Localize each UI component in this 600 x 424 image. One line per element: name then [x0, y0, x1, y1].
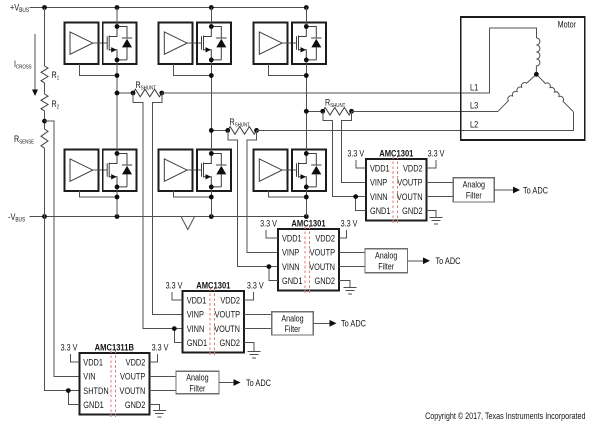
svg-text:VINN: VINN	[370, 191, 388, 202]
phase C shunt node wire	[306, 110, 322, 112]
filter 1 output arrow	[494, 189, 513, 191]
svg-text:Motor: Motor	[558, 20, 577, 30]
kelvin sense B right to AMC1301 U2 VINP	[247, 130, 278, 252]
U4 GND1 tie to SHTDN	[68, 391, 79, 405]
wire -VBUS down to SHTDN	[45, 217, 80, 391]
U1 output wires	[427, 182, 454, 196]
svg-text:VINP: VINP	[370, 177, 388, 188]
node R2/RSENSE junction	[42, 119, 47, 124]
U4 GND2 ground	[149, 405, 166, 417]
driver tab high-side B	[174, 64, 212, 76]
svg-text:VINP: VINP	[187, 309, 205, 320]
kelvin sense A left to AMC1301 U3 VINN	[133, 93, 183, 329]
wire R2-RSENSE	[44, 111, 46, 129]
svg-text:VINN: VINN	[282, 261, 300, 272]
analog filter 2	[365, 249, 408, 273]
driver tab low-side A	[79, 191, 117, 198]
U1 GND2 ground	[427, 211, 443, 224]
resistor R1	[41, 66, 48, 83]
wire VIN tap from divider to AMC1311B VIN	[45, 121, 80, 376]
U4 3.3V supply left	[71, 354, 80, 362]
svg-text:3.3 V: 3.3 V	[152, 343, 169, 353]
low-side phase B driver+IGBT	[159, 150, 231, 192]
motor winding right	[536, 74, 573, 112]
svg-text:VINN: VINN	[187, 323, 205, 334]
low-side phase A driver+IGBT	[64, 150, 136, 192]
svg-text:VDD2: VDD2	[403, 162, 423, 173]
U3 isolation barrier	[210, 289, 214, 357]
U2 output wires	[339, 252, 365, 266]
leg wires phase B	[210, 8, 212, 217]
svg-text:Analog: Analog	[375, 251, 397, 261]
kelvin sense B left to AMC1301 U2 VINN	[228, 130, 278, 266]
svg-text:To ADC: To ADC	[436, 255, 461, 266]
svg-text:3.3 V: 3.3 V	[347, 149, 364, 159]
driver tab high-side A	[79, 64, 117, 76]
U2 3.3V supply left	[266, 230, 278, 238]
wire phase A to motor L1	[162, 28, 537, 93]
svg-text:SHTDN: SHTDN	[83, 385, 108, 396]
svg-text:VDD2: VDD2	[220, 294, 240, 305]
svg-text:AMC1301: AMC1301	[291, 217, 325, 228]
svg-text:Copyright © 2017, Texas Instru: Copyright © 2017, Texas Instruments Inco…	[425, 411, 585, 421]
U2 GND1 tie to VINN	[269, 267, 278, 281]
svg-text:3.3 V: 3.3 V	[166, 281, 183, 291]
svg-text:VOUTP: VOUTP	[397, 177, 423, 188]
svg-text:ICROSS: ICROSS	[14, 59, 32, 70]
svg-text:-VBUS: -VBUS	[8, 211, 26, 224]
isolated amplifier U1 AMC1301	[366, 147, 427, 224]
high-side phase A driver+IGBT	[64, 23, 136, 65]
analog filter 1	[453, 178, 494, 202]
U1 3.3V supply right	[427, 160, 436, 168]
node dots on -VBUS	[42, 214, 47, 219]
resistor RSHUNT phase B	[228, 127, 257, 135]
svg-text:L1: L1	[470, 81, 479, 92]
svg-text:L2: L2	[470, 119, 479, 130]
leg wires phase C	[305, 8, 307, 217]
svg-text:3.3 V: 3.3 V	[61, 343, 78, 353]
wire phase C to motor L3	[352, 110, 498, 112]
svg-text:VDD1: VDD1	[83, 356, 103, 367]
isolated amplifier U2 AMC1301	[278, 217, 339, 294]
svg-text:Analog: Analog	[281, 314, 303, 324]
resistor RSHUNT phase C	[323, 107, 352, 115]
svg-text:GND2: GND2	[220, 337, 241, 348]
kelvin sense C right to AMC1301 U1 VINP	[342, 111, 366, 182]
svg-text:VDD2: VDD2	[126, 356, 146, 367]
svg-text:3.3 V: 3.3 V	[260, 219, 277, 229]
U2 GND2 ground	[339, 281, 357, 294]
U1 GND1 tie to VINN	[356, 197, 366, 211]
wire RSENSE to -VBUS	[44, 148, 46, 216]
svg-text:VDD2: VDD2	[315, 232, 335, 243]
svg-text:GND2: GND2	[402, 205, 423, 216]
svg-text:RSHUNT: RSHUNT	[230, 117, 250, 128]
svg-text:Filter: Filter	[466, 191, 482, 201]
isolated amplifier U4 AMC1311B	[79, 341, 149, 418]
U1 isolation barrier	[393, 157, 397, 225]
svg-text:R1: R1	[52, 70, 60, 81]
U3 GND2 ground	[244, 343, 261, 358]
analog filter 3	[272, 312, 314, 335]
svg-text:Filter: Filter	[285, 324, 301, 334]
-VBUS rail	[30, 216, 307, 218]
wire phase B to motor L2	[257, 112, 574, 131]
svg-text:VINP: VINP	[282, 247, 300, 258]
motor winding left	[498, 74, 536, 111]
svg-text:GND1: GND1	[187, 337, 208, 348]
svg-text:3.3 V: 3.3 V	[428, 149, 445, 159]
U2 3.3V supply right	[339, 230, 346, 238]
filter 4 output arrow	[219, 382, 234, 384]
svg-text:VOUTP: VOUTP	[310, 247, 336, 258]
driver tab low-side C	[269, 191, 307, 198]
resistor RSENSE	[41, 129, 48, 148]
+VBUS rail	[29, 7, 306, 9]
svg-text:VOUTN: VOUTN	[309, 261, 335, 272]
svg-text:VDD1: VDD1	[282, 232, 302, 243]
ICROSS arrow	[34, 34, 36, 90]
svg-text:Analog: Analog	[463, 180, 485, 190]
svg-text:L3: L3	[470, 100, 479, 111]
U3 3.3V supply left	[172, 292, 183, 300]
svg-text:RSHUNT: RSHUNT	[136, 80, 156, 91]
svg-text:AMC1311B: AMC1311B	[95, 341, 134, 352]
svg-text:GND1: GND1	[370, 205, 391, 216]
svg-text:VOUTP: VOUTP	[120, 371, 146, 382]
node dots on +VBUS	[42, 5, 47, 10]
driver tab high-side C	[269, 64, 307, 76]
svg-text:VOUTN: VOUTN	[214, 323, 240, 334]
svg-text:3.3 V: 3.3 V	[341, 219, 358, 229]
svg-text:AMC1301: AMC1301	[379, 147, 413, 158]
U4 3.3V supply right	[149, 354, 157, 362]
svg-text:VOUTN: VOUTN	[120, 385, 146, 396]
svg-text:VDD1: VDD1	[187, 294, 207, 305]
motor winding top	[536, 38, 540, 74]
svg-text:GND1: GND1	[83, 399, 104, 410]
svg-text:VIN: VIN	[83, 371, 95, 382]
U4 output wires	[149, 376, 176, 390]
svg-text:GND2: GND2	[125, 399, 146, 410]
svg-text:Filter: Filter	[378, 262, 394, 272]
driver tab low-side B	[174, 191, 212, 198]
kelvin sense C left to AMC1301 U1 VINN	[323, 111, 366, 196]
U3 output wires	[244, 314, 272, 328]
svg-text:To ADC: To ADC	[523, 185, 548, 196]
U1 3.3V supply left	[356, 160, 366, 168]
svg-text:+VBUS: +VBUS	[10, 2, 29, 15]
ground symbol on -VBUS	[181, 217, 195, 230]
U4 isolation barrier	[111, 351, 115, 419]
filter 3 output arrow	[313, 322, 330, 324]
svg-text:To ADC: To ADC	[341, 318, 366, 329]
wire R1-R2	[44, 83, 46, 94]
svg-text:Analog: Analog	[186, 373, 208, 383]
U3 3.3V supply right	[244, 292, 253, 300]
svg-text:AMC1301: AMC1301	[196, 279, 230, 290]
svg-text:GND2: GND2	[315, 275, 336, 286]
svg-text:VDD1: VDD1	[370, 162, 390, 173]
svg-text:R2: R2	[52, 99, 60, 110]
U2 isolation barrier	[305, 227, 309, 295]
kelvin sense A right to AMC1301 U3 VINP	[153, 93, 183, 314]
svg-text:RSHUNT: RSHUNT	[325, 98, 345, 109]
filter 2 output arrow	[408, 260, 424, 262]
phase B shunt node wire	[211, 129, 227, 131]
phase A shunt node wire	[117, 92, 133, 94]
high-side phase C driver+IGBT	[254, 23, 326, 65]
svg-text:VOUTP: VOUTP	[215, 309, 241, 320]
resistor R2	[41, 94, 48, 111]
divider chain wire top	[44, 8, 46, 67]
svg-text:VOUTN: VOUTN	[397, 191, 423, 202]
analog filter 4	[176, 371, 219, 394]
motor star node	[534, 72, 539, 77]
high-side phase B driver+IGBT	[159, 23, 231, 65]
svg-text:3.3 V: 3.3 V	[247, 281, 264, 291]
leg wires phase A	[116, 8, 118, 217]
svg-text:To ADC: To ADC	[246, 377, 271, 388]
U3 GND1 tie to VINN	[174, 329, 182, 343]
svg-text:GND1: GND1	[282, 275, 303, 286]
svg-text:Filter: Filter	[189, 384, 205, 394]
motor box	[461, 17, 585, 140]
isolated amplifier U3 AMC1301	[183, 279, 244, 356]
resistor RSHUNT phase A	[133, 89, 162, 97]
low-side phase C driver+IGBT	[254, 150, 326, 192]
svg-text:RSENSE: RSENSE	[14, 134, 35, 145]
